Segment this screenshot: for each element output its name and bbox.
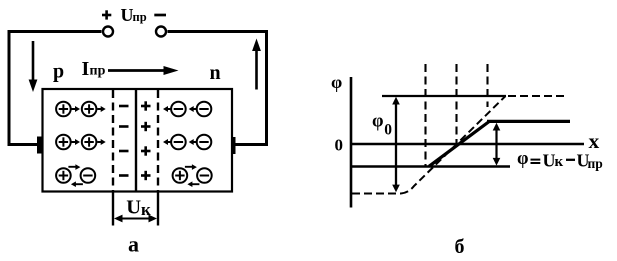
svg-text:к: к (555, 154, 564, 170)
svg-text:p: p (53, 61, 64, 83)
svg-text:x: x (589, 129, 600, 153)
svg-text:I: I (82, 58, 90, 80)
svg-text:пр: пр (90, 63, 106, 78)
svg-text:0: 0 (335, 136, 344, 155)
svg-text:а: а (128, 232, 139, 257)
svg-text:0: 0 (384, 122, 392, 139)
svg-text:n: n (210, 62, 221, 84)
svg-text:φ: φ (372, 111, 384, 131)
svg-text:пр: пр (588, 156, 603, 171)
svg-text:φ: φ (331, 72, 342, 92)
svg-text:б: б (455, 236, 465, 258)
svg-text:φ: φ (517, 149, 529, 169)
svg-text:пр: пр (133, 10, 147, 24)
svg-text:U: U (126, 196, 141, 218)
